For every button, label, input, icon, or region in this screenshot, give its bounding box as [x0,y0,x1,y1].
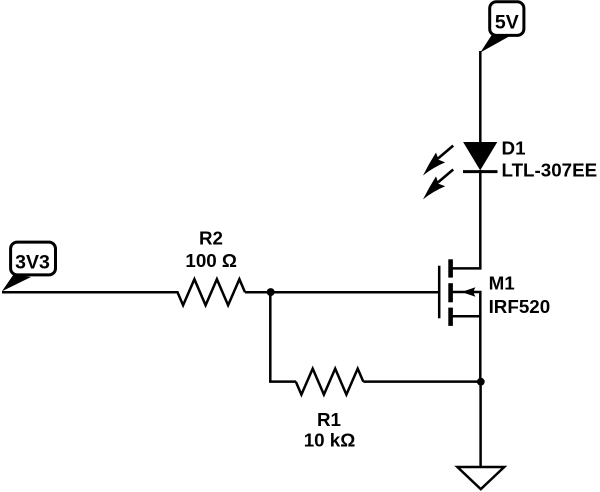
net flag 3V3 [2,242,56,291]
LED light arrow 1 [423,146,453,176]
svg-text:5V: 5V [495,11,519,33]
gate bar [438,266,441,319]
svg-text:3V3: 3V3 [15,252,50,274]
n-channel MOSFET M1 [439,259,481,326]
wire M1 source to node B [479,315,482,382]
LED D1 [463,143,498,172]
source lead [451,315,482,318]
svg-text:R2: R2 [199,227,223,248]
channel bar source [448,308,453,326]
node A junction dot [267,288,275,296]
wire D1 cathode to M1 drain [451,170,481,268]
resistor R2 [178,279,246,305]
wire node B to ground [479,382,482,467]
wire R1 to node B [363,380,480,383]
node B junction dot [477,378,485,386]
resistor R1 [296,369,364,395]
wire node A down to R1 [270,292,296,381]
wire 3V3 to R2 [2,291,179,294]
LED light arrow 2 [423,170,453,200]
svg-text:10 kΩ: 10 kΩ [304,430,356,451]
channel bar drain [448,259,453,277]
svg-text:D1: D1 [502,137,526,158]
wire R2 to M1 gate [245,291,439,294]
body lead with arrow [451,292,481,316]
channel bar body [448,283,453,302]
ground symbol [457,467,504,489]
svg-text:100 Ω: 100 Ω [185,250,237,271]
svg-text:IRF520: IRF520 [489,296,551,317]
svg-text:LTL-307EE: LTL-307EE [502,159,598,180]
svg-text:R1: R1 [317,409,341,430]
wire 5V to D1 anode [479,51,482,144]
net flag 5V [480,2,524,53]
svg-text:M1: M1 [489,272,515,293]
